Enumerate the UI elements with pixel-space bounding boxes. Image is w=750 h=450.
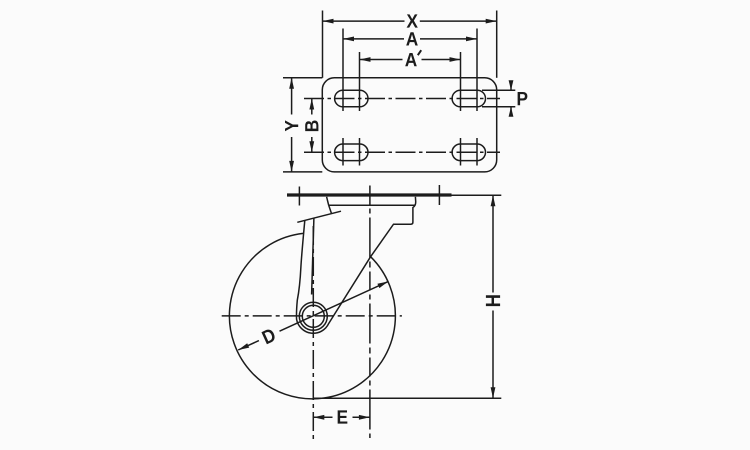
extension line H bottom (ground line) — [314, 397, 501, 399]
label X — [407, 14, 418, 27]
label Y (rotated) — [285, 120, 298, 131]
slot bottom-right — [452, 144, 485, 161]
label D (rotated along dim line) — [261, 328, 276, 344]
bolt tick right — [438, 185, 440, 205]
dimension line Y — [291, 78, 293, 172]
swivel top plate tier1 left edge — [327, 197, 329, 206]
axle hole — [302, 305, 324, 327]
extension line Y top — [283, 77, 322, 79]
mounting plate edge (side view, thick line) — [287, 193, 452, 196]
dimension line D (diagonal) — [238, 281, 388, 350]
bolt tick left — [298, 187, 300, 206]
extension line Y bottom — [283, 171, 322, 173]
plate outline (top view) — [322, 78, 496, 172]
label A — [406, 32, 418, 45]
label B (rotated) — [305, 121, 318, 132]
swivel axis center line — [369, 186, 371, 439]
label A-prime — [405, 53, 417, 66]
hole tick bottom-left outer — [342, 138, 344, 166]
slot top-left — [335, 90, 368, 107]
swivel housing right outline — [371, 197, 416, 257]
fork left leg outline and yoke — [296, 220, 370, 333]
label E — [338, 410, 348, 423]
swivel top plate tier1 bottom edge — [329, 204, 416, 206]
extension line A-prime left (hole tick) — [359, 52, 361, 111]
dimension line X — [323, 20, 497, 22]
extension line A-prime right (hole tick) — [460, 52, 462, 111]
wheel vertical center line — [312, 226, 314, 440]
slot top-right — [452, 90, 485, 107]
extension line X right — [496, 11, 498, 78]
hole tick bottom-left inner — [359, 138, 361, 166]
dimension line E — [313, 416, 370, 418]
extension line H top — [452, 194, 502, 196]
center line top slot row — [304, 98, 500, 100]
extension line A left (hole tick) — [342, 29, 344, 112]
extension line A right (hole tick) — [476, 29, 478, 112]
hub outer circle — [299, 302, 327, 330]
wheel outline — [229, 233, 395, 398]
dimension line B — [311, 99, 313, 153]
label H (rotated) — [486, 295, 500, 306]
extension line P top — [482, 89, 515, 91]
hole tick bottom-right outer — [476, 138, 478, 166]
extension line X left — [322, 11, 324, 78]
label P — [518, 92, 528, 105]
hole tick bottom-right inner — [460, 138, 462, 166]
fork left leg inner edge — [312, 218, 314, 294]
dimension line P (outside arrows) — [510, 82, 512, 116]
dimension line A — [343, 38, 477, 40]
dimension line H — [492, 195, 494, 398]
swivel housing tier2 left edge — [329, 205, 332, 214]
extension line P bottom — [482, 106, 515, 108]
dimension line A-prime — [360, 59, 461, 61]
slot bottom-left — [335, 144, 368, 161]
fork top slant edge — [297, 211, 341, 222]
center line bottom slot row — [304, 151, 500, 153]
wheel horizontal center line — [222, 315, 402, 317]
